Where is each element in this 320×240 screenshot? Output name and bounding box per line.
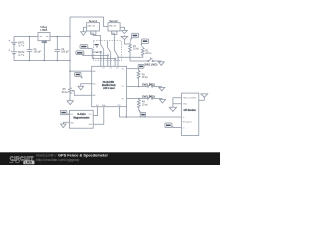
svg-text:mrericsmith /: mrericsmith / [36,153,57,157]
svg-text:50 kΩ: 50 kΩ [62,91,68,94]
label BAT1 3.7V [18,42,25,48]
label SW3 [142,97,155,99]
svg-text:L7805: L7805 [40,29,47,32]
ground magnetometer [61,122,70,127]
svg-text:SCL: SCL [70,114,73,116]
resistor R4 [137,99,140,110]
junction dots power rails [29,36,71,62]
junction U1 pin1 [69,70,71,72]
voltage regulator VR1 [38,33,50,61]
svg-text:D3: D3 [116,68,118,70]
svg-text:GND: GND [183,104,188,106]
svg-text:RX: RX [122,98,125,100]
junction R4 row3 [138,98,140,100]
flag net label +5V left [75,72,83,78]
switch pole 3 [114,51,118,67]
ground servo1 [81,27,87,35]
wire servo1 sig to switch [93,34,100,44]
svg-text:10 kΩ: 10 kΩ [145,52,151,55]
wire U1 pin1 to rail [70,70,92,72]
svg-text:SW2 (NO): SW2 (NO) [142,84,155,86]
svg-text:D1: D1 [103,68,105,70]
resistor R1 [129,44,132,61]
potentiometer R5 [69,87,92,95]
svg-text:GND: GND [70,123,74,125]
wire U3 gnd bracket [173,98,182,108]
svg-text:GPS Fence & Speedometer: GPS Fence & Speedometer [58,153,109,157]
flag text U3 rx [166,125,171,127]
flag net label above R3 [138,64,144,68]
label C1 100uF [34,48,42,54]
svg-text:R2: R2 [145,50,149,52]
wire servo2 right to arrow [120,27,124,30]
flag text A [133,35,138,37]
switch pole 1 [100,44,104,66]
svg-text:3.7 V: 3.7 V [18,54,24,57]
capacitor C1 [27,37,33,61]
net arrow row1 [158,62,164,66]
net arrow row3 [160,100,166,104]
svg-text:D2: D2 [110,68,112,70]
ground U1 left [78,84,92,90]
wire servo feed rail [70,16,104,18]
svg-text:RA1: RA1 [92,83,95,86]
microcontroller U1 [92,66,127,106]
label C2 100uF [61,48,69,54]
flag text servo1cmd [81,46,86,48]
svg-text:SW1 (NO): SW1 (NO) [144,64,157,66]
svg-text:Servo2: Servo2 [109,20,118,23]
svg-text:SCL: SCL [96,105,99,107]
svg-text:R4: R4 [142,102,146,104]
wire U1 bottom to GPS (wire A) [120,107,182,117]
flag text U2 left [61,112,65,114]
svg-text:Servo1: Servo1 [89,20,98,23]
svg-text:GND +5V: GND +5V [109,25,117,27]
svg-text:LAB: LAB [25,161,33,165]
switch SW2 [147,83,162,88]
svg-text:GND ant (PWR): GND ant (PWR) [183,97,196,100]
flag text below R4 [141,114,145,116]
wire main left vertical [69,17,71,87]
net arrow down B [121,35,130,44]
wire row1 to switch SW1 [130,60,148,62]
flag net label U3 rx [165,123,182,128]
svg-text:RA2: RA2 [92,94,95,97]
wire bottom rail [14,60,70,62]
junction pole3 tip to R2 [117,56,119,58]
svg-text:tx: tx [183,116,184,119]
switch linkage dashed box [93,41,121,61]
label U2 text [74,113,90,119]
svg-text:TX: TX [122,86,125,88]
junction R3 row2 [138,86,140,88]
svg-text:http://circuitlab.com/c/gpgwqv: http://circuitlab.com/c/gpgwqv [36,158,80,162]
switch SW1 [148,57,162,62]
wire U1 bottom to magnetometer pin1 [93,107,97,116]
servo SERVO1 [87,23,100,35]
capacitor C2 [54,37,60,61]
svg-text:VD: VD [122,68,125,70]
label VR1 L7805 [40,26,47,43]
wire pole3 tip to R2 bottom [118,55,143,58]
svg-text:3.7 V: 3.7 V [18,44,24,47]
flag text above R3 [139,66,143,68]
U1 pin labels [92,68,124,107]
GPS receiver U3 [182,93,199,135]
antenna ANT1 [199,94,208,100]
label U1 text [102,81,116,90]
flag text B [143,40,148,42]
net arrow down A [121,31,127,34]
net arrow row2 [159,87,165,91]
svg-text:RX2: RX2 [118,105,121,107]
flag net label U2 left [60,110,69,114]
flag net label A top right [130,33,139,44]
svg-text:10 kΩ: 10 kΩ [133,48,139,51]
wire common to pole3 [92,58,114,60]
battery BAT1 [9,37,18,52]
svg-text:10 kΩ: 10 kΩ [142,103,148,106]
flag text +5V left [76,74,80,76]
label BAT2 3.7V [18,51,25,57]
ground U3 [169,107,176,111]
wire row2 [127,86,148,88]
svg-text:VCC: VCC [89,114,93,116]
flag net label servo2cmd [76,51,107,56]
label R4 10k [142,102,148,107]
wire U1 pinA to R3 [127,68,139,70]
svg-text:R5: R5 [63,89,67,91]
svg-text:SDA: SDA [89,123,93,126]
flag net label B [141,39,149,48]
svg-text:100 µF: 100 µF [61,51,69,54]
wire servo2 sig down [113,34,115,50]
svg-text:10 kΩ: 10 kΩ [142,76,148,79]
svg-text:RF (option): RF (option) [183,121,192,124]
U2 pin labels [70,114,93,126]
flag net label below R4 [139,110,146,117]
switch pole 2 [107,41,111,67]
wire row3 [127,98,148,100]
ground potentiometer [67,94,73,105]
svg-text:RA0: RA0 [92,70,95,73]
label Servo2 [109,20,118,35]
flag text servo2cmd [77,52,82,54]
svg-text:SW3 (NO): SW3 (NO) [142,97,155,99]
wire top rail left [14,36,70,38]
label R2 10k [145,50,151,55]
svg-text:GPS Receiver: GPS Receiver [184,109,196,112]
svg-text:LCD tx used: LCD tx used [103,87,115,90]
resistor R3 [137,69,140,87]
wire U1 bottom to magnetometer pin2 [93,107,104,125]
footer bar [0,152,220,165]
svg-text:GND +5V: GND +5V [88,25,96,27]
label SW2 [142,84,155,86]
svg-text:100 µF: 100 µF [34,51,42,54]
logo CircuitLab [9,156,34,164]
pin number specks [96,46,98,47]
svg-text:R1: R1 [133,46,137,48]
label switch bank [95,44,99,45]
label SW1 [144,64,157,66]
label U3 text [183,97,196,130]
flag net label servo1cmd [80,45,100,59]
label R3 10k [142,74,148,79]
wire rail to servo2 [104,17,108,27]
svg-text:Magnetometer: Magnetometer [74,116,90,119]
switch SW3 [147,95,162,100]
servo SERVO2 [108,23,120,35]
svg-text:R3: R3 [142,74,146,76]
label R1 10k [133,46,139,51]
svg-text:rx: rx [183,127,185,129]
resistor R2 [141,48,144,57]
junction wireA [126,116,128,118]
battery BAT2 [9,49,18,60]
magnetometer U2 [69,110,93,128]
label Servo1 [88,20,98,35]
label R5 50k [62,89,68,94]
wire U1 corner pin down [125,107,127,117]
